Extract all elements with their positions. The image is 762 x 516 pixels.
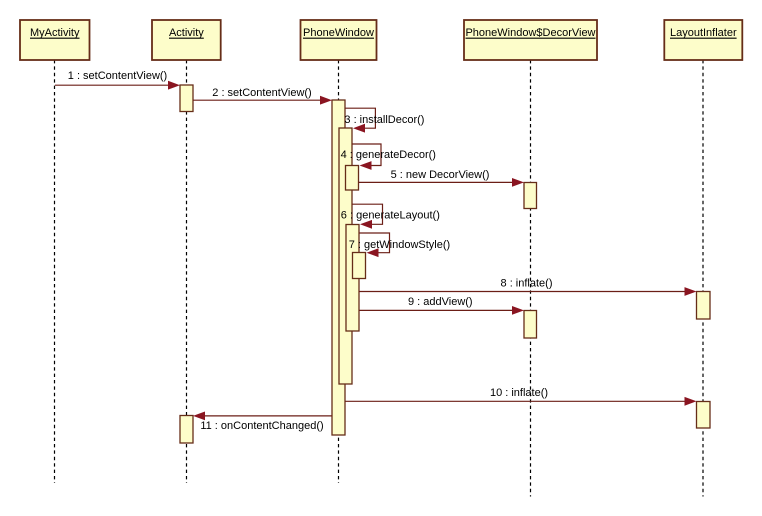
message 7 getWindowStyle self-call on PhoneWindow — [349, 233, 450, 257]
object box Activity — [152, 20, 221, 60]
message 9 addView from PhoneWindow to DecorView — [359, 296, 524, 315]
activation bar LayoutInflater L1 (inflate) — [697, 292, 711, 320]
message 1 setContentView from MyActivity to Activity — [55, 70, 180, 90]
activation bar Activity A1 — [180, 85, 193, 112]
svg-text:Activity: Activity — [169, 27, 204, 39]
object box MyActivity — [20, 20, 90, 60]
svg-text:10 : inflate(): 10 : inflate() — [490, 387, 548, 399]
svg-text:4 : generateDecor(): 4 : generateDecor() — [341, 149, 436, 161]
svg-text:MyActivity: MyActivity — [30, 27, 80, 39]
message 5 new DecorView from PhoneWindow to DecorView — [359, 169, 525, 187]
activation bar DecorView B1 (new DecorView) — [524, 183, 537, 209]
message 2 setContentView from Activity to PhoneWindow — [193, 87, 332, 105]
activation bar PhoneWindow A (outer) — [332, 100, 345, 435]
lifeline PhoneWindow$DecorView — [530, 60, 532, 497]
message 11 onContentChanged from PhoneWindow back to Activity — [193, 412, 332, 433]
activation bar PhoneWindow D (getWindowStyle) — [353, 253, 366, 279]
svg-text:8 : inflate(): 8 : inflate() — [501, 277, 553, 289]
activation bar LayoutInflater L2 (inflate) — [697, 402, 711, 429]
message 10 inflate from PhoneWindow to LayoutInflater — [345, 387, 697, 406]
activation bar PhoneWindow C6 (generateLayout) — [346, 225, 359, 332]
message 4 generateDecor self-call on PhoneWindow — [341, 144, 436, 170]
message 3 installDecor self-call on PhoneWindow — [344, 108, 424, 132]
svg-text:11 : onContentChanged(): 11 : onContentChanged() — [200, 420, 323, 432]
message 6 generateLayout self-call on PhoneWindow — [341, 204, 440, 229]
svg-text:5 : new DecorView(): 5 : new DecorView() — [391, 169, 490, 181]
object box LayoutInflater — [664, 20, 742, 60]
svg-text:PhoneWindow$DecorView: PhoneWindow$DecorView — [465, 27, 595, 39]
object box PhoneWindow$DecorView — [464, 20, 597, 60]
activation bar PhoneWindow B (installDecor) — [339, 128, 352, 384]
lifeline Activity — [186, 60, 188, 483]
lifeline LayoutInflater — [702, 60, 704, 497]
svg-text:LayoutInflater: LayoutInflater — [670, 27, 737, 39]
svg-text:2 : setContentView(): 2 : setContentView() — [212, 87, 311, 99]
message 8 inflate from PhoneWindow to LayoutInflater — [359, 277, 697, 296]
object box PhoneWindow — [301, 20, 377, 60]
activation bar Activity A2 (onContentChanged) — [180, 416, 193, 444]
activation bar DecorView B2 (addView) — [524, 311, 537, 339]
svg-text:9 : addView(): 9 : addView() — [408, 296, 473, 308]
svg-text:1 : setContentView(): 1 : setContentView() — [68, 70, 167, 82]
lifeline PhoneWindow — [338, 60, 340, 483]
svg-text:6 : generateLayout(): 6 : generateLayout() — [341, 210, 440, 222]
svg-text:7 : getWindowStyle(): 7 : getWindowStyle() — [349, 239, 450, 251]
lifeline MyActivity — [54, 60, 56, 483]
svg-text:PhoneWindow: PhoneWindow — [303, 27, 374, 39]
svg-text:3 : installDecor(): 3 : installDecor() — [344, 114, 424, 126]
activation bar PhoneWindow C4 (generateDecor) — [346, 166, 359, 191]
